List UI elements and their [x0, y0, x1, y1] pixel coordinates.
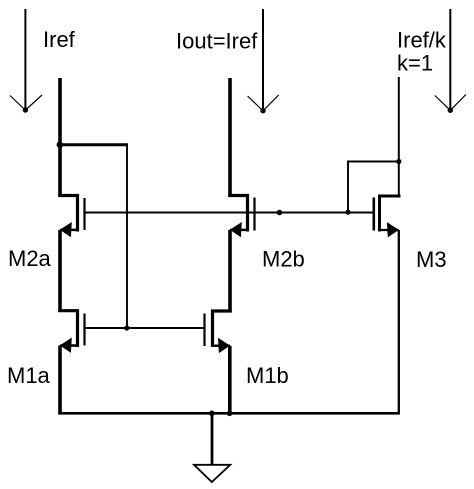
wire M3 drain to gate tap	[348, 162, 399, 213]
wire gate line M2a-M2b-M3	[85, 212, 374, 214]
wire M3 source down	[398, 230, 400, 413]
svg-text:M1a: M1a	[7, 363, 51, 388]
svg-text:M3: M3	[416, 247, 447, 272]
wire node to gate column	[60, 143, 127, 146]
transistor M3	[374, 196, 401, 237]
junction dot M1 gate column	[124, 325, 129, 330]
junction node M3 drain-gate tap	[396, 159, 401, 164]
transistor M2a	[58, 196, 84, 238]
svg-text:Iref: Iref	[43, 27, 76, 52]
wire M1b source down	[228, 346, 232, 414]
wire ground rail	[58, 412, 400, 415]
wire gate line M1a-M1b	[85, 327, 205, 329]
junction dot M3 gate tap	[345, 210, 350, 215]
transistor M1b	[205, 311, 232, 353]
junction dot ground stem	[209, 411, 215, 417]
svg-text:Iout=Iref: Iout=Iref	[176, 29, 258, 54]
wire M1a source down	[58, 346, 62, 414]
junction dot on gate line	[277, 210, 283, 216]
junction dot M1b source on rail	[227, 411, 233, 417]
wire M2b source to M1b drain	[228, 230, 232, 311]
transistor M1a	[58, 311, 84, 353]
wire middle branch drain	[228, 78, 232, 196]
svg-text:M2a: M2a	[8, 246, 52, 271]
current arrow Iout	[248, 9, 279, 113]
transistor M2b	[228, 196, 254, 238]
node A (Iref mirror node)	[57, 142, 63, 148]
svg-text:M2b: M2b	[262, 247, 305, 272]
wire right branch drain	[398, 77, 400, 196]
wire gate column down to M1 gates	[126, 143, 128, 328]
current arrow Iref/k	[435, 9, 466, 113]
ground	[194, 413, 230, 482]
svg-text:M1b: M1b	[246, 363, 289, 388]
current arrow Iref	[10, 9, 42, 113]
wire M2a source to M1a drain	[58, 230, 62, 311]
svg-text:k=1: k=1	[397, 51, 433, 76]
wire left branch drain	[58, 78, 62, 196]
svg-text:Iref/k: Iref/k	[397, 28, 447, 53]
